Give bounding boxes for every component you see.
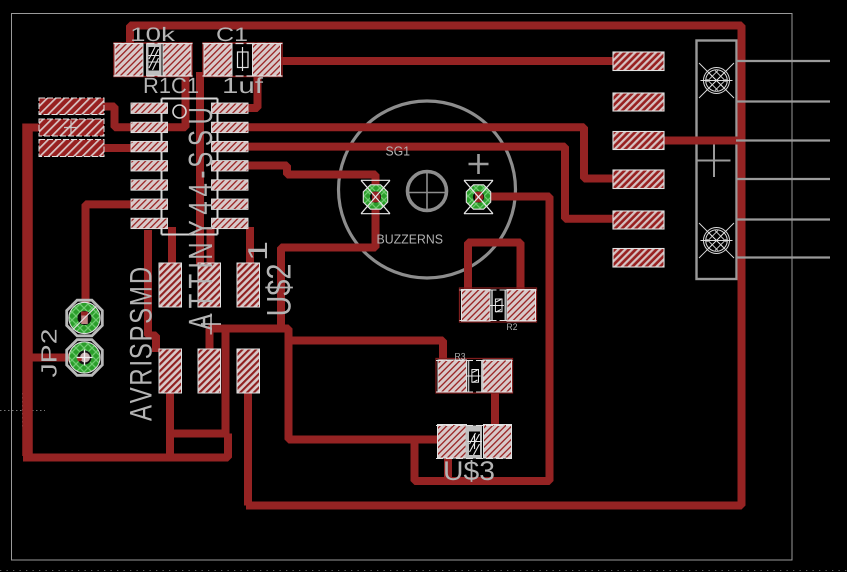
label ATTINY44-SSU <box>189 109 213 330</box>
capacitor C1 pad 1 <box>204 44 232 77</box>
IC1 body outline <box>162 99 218 235</box>
wire IC1 pin13 to JP pin4 <box>246 127 615 178</box>
label pin1 mark <box>248 243 267 259</box>
left bar origin cross <box>64 121 78 135</box>
buzzer center crosshair <box>406 171 448 212</box>
IC1 pin 5 pad left <box>131 180 168 190</box>
IC1 pin 8 pad right <box>212 218 249 228</box>
wire left pad3 to IC1 pin3 <box>102 144 133 152</box>
IC1 pin 11 pad right <box>212 161 249 171</box>
mounting hole bottom <box>699 223 734 258</box>
connector pin line 4 <box>736 178 830 180</box>
U$3 pad 2 <box>484 425 512 459</box>
resistor R2 keepout <box>460 288 537 322</box>
JP2 outline octagons <box>67 300 103 336</box>
label R3 <box>455 353 465 360</box>
IC1 pin 14 pad right <box>212 103 249 113</box>
IC1 pin 13 pad right <box>212 122 249 132</box>
wire into U$3 pad1 <box>410 436 442 444</box>
wire IC1 pin14 up to C1 <box>246 76 258 108</box>
connector pin line 3 <box>736 139 830 141</box>
label 1uf <box>224 77 263 93</box>
U$3 body mark <box>466 426 483 459</box>
resistor R2 body mark <box>492 290 505 321</box>
mounting hole top <box>699 63 734 98</box>
resistor R3 pad 2 <box>483 360 512 392</box>
label C1 <box>217 27 247 41</box>
IC1 pin1 marker circle <box>173 105 186 118</box>
IC1 pin 10 pad right <box>212 180 249 190</box>
IC1 pin 2 pad left <box>131 122 168 132</box>
label R1C1 <box>145 78 198 94</box>
U$3 pad 1 <box>438 425 467 459</box>
buzzer pad right <box>466 185 490 209</box>
connector body outline <box>697 41 737 280</box>
resistor R1 body mark <box>146 44 162 77</box>
grid origin marker <box>0 410 45 412</box>
wire buzzer right pad long return <box>210 197 550 482</box>
U$2 pad C <box>237 263 260 307</box>
wire U$2 pin6 to bottom loop <box>244 390 252 506</box>
U$2 origin cross <box>201 314 221 335</box>
wire left vertical bus <box>27 124 41 132</box>
capacitor C1 keepout <box>203 43 282 77</box>
label R2 <box>507 323 517 330</box>
wire C1 to U$2 pad B <box>196 72 204 266</box>
wire JP pin3 to right bus <box>663 137 741 145</box>
wire R3 pad2 to U$3 <box>491 391 499 429</box>
connector pin line 5 <box>736 218 830 220</box>
label SG1 <box>386 146 409 155</box>
U$3 outline dashes <box>436 426 512 459</box>
wire R2 bridge <box>468 243 521 292</box>
label BUZZERNS <box>378 234 443 243</box>
buzzer pad left <box>363 185 387 209</box>
pad SV2 left bar <box>39 119 104 136</box>
capacitor C1 pad 2 <box>253 44 281 77</box>
pad SV3 left bar <box>39 140 104 157</box>
wire R1 pin2 down to IC1 pin2 <box>166 74 186 127</box>
U$2 pad E <box>198 349 221 393</box>
U$2 pad A <box>159 263 182 307</box>
resistor R3 body mark <box>469 361 482 393</box>
wire C1 to JP pin1 <box>264 57 613 65</box>
resistor R2 pad 1 <box>462 290 491 322</box>
wire U$2 branch down <box>222 329 230 436</box>
IC1 pin 6 pad left <box>131 199 168 209</box>
JP pin 6 pad <box>613 249 664 268</box>
wire U$3 pad1 stub <box>444 457 452 481</box>
wire left pad1 to IC1 pin2 <box>102 107 133 128</box>
resistor R3 pad 1 <box>438 360 467 392</box>
JP pin 3 pad <box>613 132 664 150</box>
resistor R2 outline dashes <box>460 290 537 321</box>
label JP2 <box>41 330 57 377</box>
JP2 pad 2 <box>69 342 100 373</box>
JP2 pad 1 <box>69 302 100 333</box>
wire bottom jog left <box>168 430 228 438</box>
connector pin line 1 <box>736 60 830 62</box>
IC1 pin 12 pad right <box>212 141 249 151</box>
buzzer center hole circle <box>408 172 447 211</box>
U$2 pad B <box>198 263 221 307</box>
connector pin line 2 <box>736 100 830 102</box>
wire IC1 pin12 to JP pin5 <box>246 147 615 219</box>
resistor R3 outline dashes <box>436 361 513 393</box>
label 10k <box>132 27 175 41</box>
JP pin 4 pad <box>613 170 664 189</box>
resistor R3 keepout <box>436 359 513 394</box>
wire U$2 pad B stub <box>207 227 215 265</box>
JP pin 5 pad <box>613 211 664 229</box>
connector origin cross <box>698 144 731 177</box>
connector pin line 6 <box>736 256 830 258</box>
wire GND top/right/bottom loop <box>130 26 742 506</box>
label U$2 <box>265 265 293 314</box>
JP pin 2 pad <box>613 93 664 111</box>
grid dots bottom <box>0 570 847 572</box>
IC1 pin 9 pad right <box>212 199 249 209</box>
label AVRISPSMD <box>130 268 152 421</box>
U$2 pad D <box>159 349 182 393</box>
capacitor C1 body mark <box>238 47 249 71</box>
buzzer SG1 outline circle <box>339 101 516 278</box>
IC1 pin 4 pad left <box>131 161 168 171</box>
IC1 pin 1 pad left <box>131 103 168 113</box>
label U$3 <box>445 460 494 482</box>
resistor R1 keepout <box>114 43 192 77</box>
resistor R1 outline dashes <box>114 44 193 77</box>
wire U$2 pad D stub down <box>166 391 174 458</box>
U$2 pad F <box>237 349 260 393</box>
capacitor C1 outline dashes <box>203 44 283 77</box>
wire IC1 pin7 to U$2 pad D <box>148 230 156 352</box>
resistor R2 pad 2 <box>507 290 536 322</box>
pad SV1 left bar <box>39 98 104 115</box>
IC1 pin 7 pad left <box>131 218 168 228</box>
wire left bus to JP2 pin2 <box>26 354 73 362</box>
wire U$2 pad A stub <box>168 227 176 265</box>
JP pin 1 pad <box>613 52 664 71</box>
wire to R3 pad1 <box>289 341 444 364</box>
resistor R1 pad 1 <box>115 44 143 77</box>
wire IC1 pin6 to JP2 pin1 <box>86 204 134 316</box>
IC1 pin 3 pad left <box>131 141 168 151</box>
wire buzzer left pad down chain <box>281 195 376 330</box>
resistor R1 pad 2 <box>163 44 191 77</box>
buzzer plus mark <box>469 154 489 174</box>
wire IC1 pin11 to buzzer left pad <box>246 166 376 196</box>
wire U$2 pad C stub <box>246 227 254 265</box>
